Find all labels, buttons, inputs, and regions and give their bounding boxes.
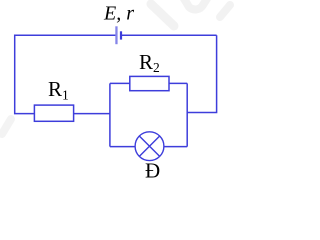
wire R1 to node A (74, 113, 110, 115)
resistor R2 (130, 76, 169, 90)
resistor R1 (34, 105, 73, 121)
watermark top-right (151, 0, 230, 26)
wire right vertical (187, 35, 216, 112)
wire lamp to node B (164, 146, 187, 148)
wire node A to R2 (110, 82, 130, 84)
svg-text:E, r: E, r (103, 2, 134, 24)
wire node A to lamp (110, 146, 135, 148)
svg-text:R2: R2 (139, 50, 160, 75)
wire R2 to node B (169, 82, 187, 84)
wire top-left segment (15, 35, 116, 113)
battery E,r plates (115, 26, 122, 44)
svg-text:Đ: Đ (145, 159, 160, 183)
lamp D (135, 132, 164, 161)
node B right bar (186, 83, 188, 146)
node A left bar (109, 83, 111, 146)
watermark bottom-left (2, 119, 11, 134)
wire top-right segment (122, 34, 217, 36)
svg-text:R1: R1 (48, 77, 69, 102)
